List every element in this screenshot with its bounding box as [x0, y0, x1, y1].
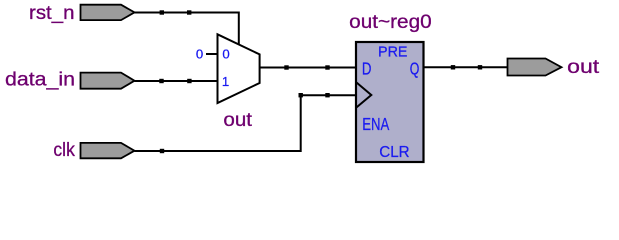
junction dot on rst_n wire [187, 10, 191, 14]
flip-flop out~reg0 body [356, 42, 424, 162]
svg-text:PRE: PRE [378, 44, 408, 61]
svg-text:0: 0 [222, 47, 229, 62]
svg-text:out: out [223, 110, 252, 131]
svg-text:Q: Q [410, 58, 420, 78]
svg-text:ENA: ENA [362, 114, 389, 134]
output port out symbol [508, 59, 562, 76]
svg-text:CLR: CLR [379, 144, 409, 161]
svg-text:0: 0 [196, 47, 203, 62]
input port data_in symbol [81, 73, 135, 89]
wire data_in to mux input 1 [135, 80, 218, 82]
junction dot on rst_n wire [160, 10, 164, 14]
corner square on clk wire [299, 93, 303, 97]
svg-text:clk: clk [53, 140, 75, 161]
svg-text:data_in: data_in [5, 69, 75, 90]
input port clk symbol [81, 143, 135, 158]
junction dot on data_in wire [159, 79, 163, 83]
wire constant 0 stub [206, 53, 218, 55]
wire mux output to D input [260, 67, 356, 69]
junction dot on clk wire [160, 149, 164, 153]
junction dot on Q wire [451, 65, 455, 69]
junction dot on D wire [284, 65, 288, 69]
input port rst_n symbol [81, 5, 135, 20]
mux out (trapezoid) [218, 34, 260, 103]
junction dot on data_in wire [187, 79, 191, 83]
flip-flop clock triangle [357, 83, 372, 108]
junction dot on clk vertical-to-ff wire [325, 93, 329, 97]
wire rst_n to mux select [135, 13, 239, 45]
svg-text:D: D [362, 58, 372, 78]
svg-text:1: 1 [222, 74, 229, 89]
junction dot on Q wire [478, 65, 482, 69]
wire clk to flip-flop clock input [135, 95, 356, 151]
wire Q output to out port [424, 66, 508, 68]
junction dot on D wire [325, 65, 329, 69]
svg-text:out~reg0: out~reg0 [349, 12, 432, 33]
svg-text:rst_n: rst_n [29, 3, 75, 24]
svg-text:out: out [567, 57, 600, 78]
